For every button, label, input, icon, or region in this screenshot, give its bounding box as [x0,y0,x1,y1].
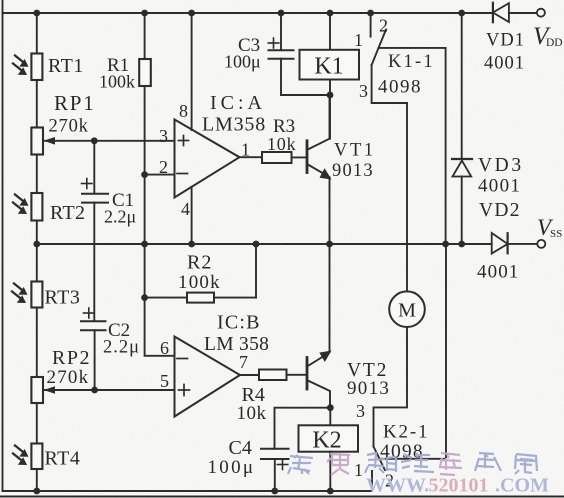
node mid rail x445.6 [442,241,449,248]
diode VD1 bar [492,3,494,22]
switch K2-1 blade [374,447,385,471]
minus sign in op-amp A [177,173,188,175]
plus sign in op-amp A [179,136,189,146]
wire C4 to bottom rail [274,459,276,491]
wire op-amp A pin 4 to mid rail [191,187,193,244]
wire RP2 wiper to op-amp B pin 5 [45,389,175,391]
switch K1-1 contact 2 stub [370,13,372,37]
light arrows at RT4 [13,446,23,460]
node C1 wiper [91,137,98,144]
watermark url line [366,475,549,497]
resistor RT4 [31,444,42,470]
resistor R4 [259,370,287,381]
resistor R2 [187,293,214,303]
capacitor C2 [81,321,106,330]
wire K1 to node [329,80,331,96]
capacitor C1 [82,194,108,203]
node top rail x36.8 [33,10,40,17]
wire mid rail to RT3 [36,244,38,282]
wire C1 to C2 [93,203,95,321]
node bottom rail x36.8 [33,488,40,495]
plus sign C4 [277,460,288,470]
capacitor C3 [269,50,294,59]
VT1 collector [308,95,330,150]
wire R2 node to op-amp B pin 6 [145,298,175,356]
wire R4 to VT2 base [287,374,307,376]
wire C2 to wiper node [94,330,96,390]
VT1 emitter [308,165,330,245]
resistor RT2 [31,193,42,221]
node mid rail x461.7 [458,241,465,248]
resistor RT3 [31,282,42,308]
wire RP2 to RT4 [36,403,38,444]
plus sign in op-amp B [179,385,190,396]
wire C1 drop [93,141,95,194]
wire top rail to C3 [280,13,282,50]
wire left frame vertical [2,0,4,491]
switch K1-1 blade [372,30,386,66]
wire RT1 to RP1 [36,80,38,128]
wire RT3 to RP2 [36,308,38,378]
wire R2 horizontal [145,297,256,299]
wire pin2 node to mid rail [144,175,146,244]
bottom border line [0,496,564,498]
relay K1 box [300,50,360,80]
VT2 emitter arrowhead [319,351,331,363]
diode VD3 triangle [453,161,472,177]
node mid rail x191.6 [188,241,195,248]
capacitor C4 [261,449,289,459]
node bottom rail x330.3 [327,488,334,495]
node VT2 collector [327,404,334,411]
wire op-amp A pin 2 [145,174,175,176]
transistor VT2 base bar [306,358,309,390]
plus sign C2 [84,308,95,318]
diode VD3 bar [452,158,472,160]
resistor RT1 [31,54,42,81]
light arrows at RT1 [13,56,23,70]
wire op-amp A output pin 1 to R3 [240,156,263,158]
op-amp U1B triangle [175,337,241,417]
wire C3 to K1 bottom node [281,59,330,95]
wire R2 right to mid rail [255,244,257,298]
node top rail x370.6 [367,10,374,17]
wire RP1 to RT2 [36,155,38,194]
diode VD1 triangle [493,3,509,22]
node top rail x281 [278,10,285,17]
wire mid rail segment diode bar to terminal [508,243,538,245]
wire top rail segment diode to terminal [509,12,537,14]
node mid rail x256 [253,241,260,248]
resistor R1 [139,59,151,86]
wire K2 to bottom rail [329,452,331,491]
wire op-amp B pin 7 to R4 [240,374,259,376]
wire VD1 junction down to VD3 [461,13,463,159]
resistor R3 [262,152,292,163]
node bottom rail x274.8 [271,488,278,495]
wire top rail to RT1 [36,13,38,54]
wiper arrowhead RP1 [44,137,56,145]
VT2 collector [308,381,330,408]
node pin2 R1 [141,171,148,178]
wire K2-1 pole to right riser [379,244,446,459]
node mid rail x36.8 [33,241,40,248]
node top rail x461.7 [458,10,465,17]
VT2 emitter [308,244,330,366]
VT1 emitter arrowhead [320,168,332,179]
wire RP1 wiper to op-amp A pin 3 [45,140,175,142]
transistor VT1 base bar [306,141,309,173]
wiper arrowhead RP2 [44,386,56,394]
wire VT2 node to C4 [275,408,331,449]
wire VT2 node to relay K2 [329,408,331,426]
light arrows at RT3 [12,284,22,298]
wire VD3 to mid rail [461,177,463,245]
minus sign in op-amp B [177,358,188,360]
diode VD2 triangle [492,233,508,254]
node top rail x191.6 [188,10,195,17]
potentiometer RP2 [31,377,43,403]
wire top rail to R1 [144,13,146,59]
node top rail x330 [327,10,334,17]
plus sign C3 [268,38,279,48]
diode VD2 bar [507,233,509,253]
wire bottom rail [3,471,373,491]
wire contact3 to motor top [406,103,408,291]
wire K1-1 contact 3 [372,65,407,103]
wire RT4 to bottom rail [36,469,38,491]
terminal VSS circle [537,240,545,248]
wire RT2 to mid rail [36,221,38,245]
node top rail x144.6 [141,10,148,17]
relay K2 box [299,425,359,451]
wire top VDD rail [3,12,493,14]
node mid rail x329.5 [326,241,333,248]
node K1 bottom [327,92,334,99]
plus sign C1 [82,179,93,189]
watermark CJK line [288,453,537,475]
terminal VDD circle [537,9,545,17]
motor M circle [389,291,425,327]
wire R1 to pin2 node [144,86,146,175]
node mid rail x144.6 [141,241,148,248]
light arrows at RT2 [13,195,23,209]
potentiometer RP1 [31,128,43,155]
wire mid VSS rail [37,243,492,245]
node R2 left [141,294,148,301]
wire op-amp A pin 8 [191,13,193,130]
wire top rail to relay K1 [329,13,331,50]
node C2 wiper [91,387,98,394]
op-amp U1A triangle [175,120,240,198]
wire R3 to VT1 base [292,156,307,158]
wire K1-1 pole to right drop [379,48,446,244]
wire motor bottom to K2-1 contact 3 [374,327,408,447]
wire mid rail to R2 left node [144,244,146,298]
wire node to VT1 collector [329,95,331,139]
